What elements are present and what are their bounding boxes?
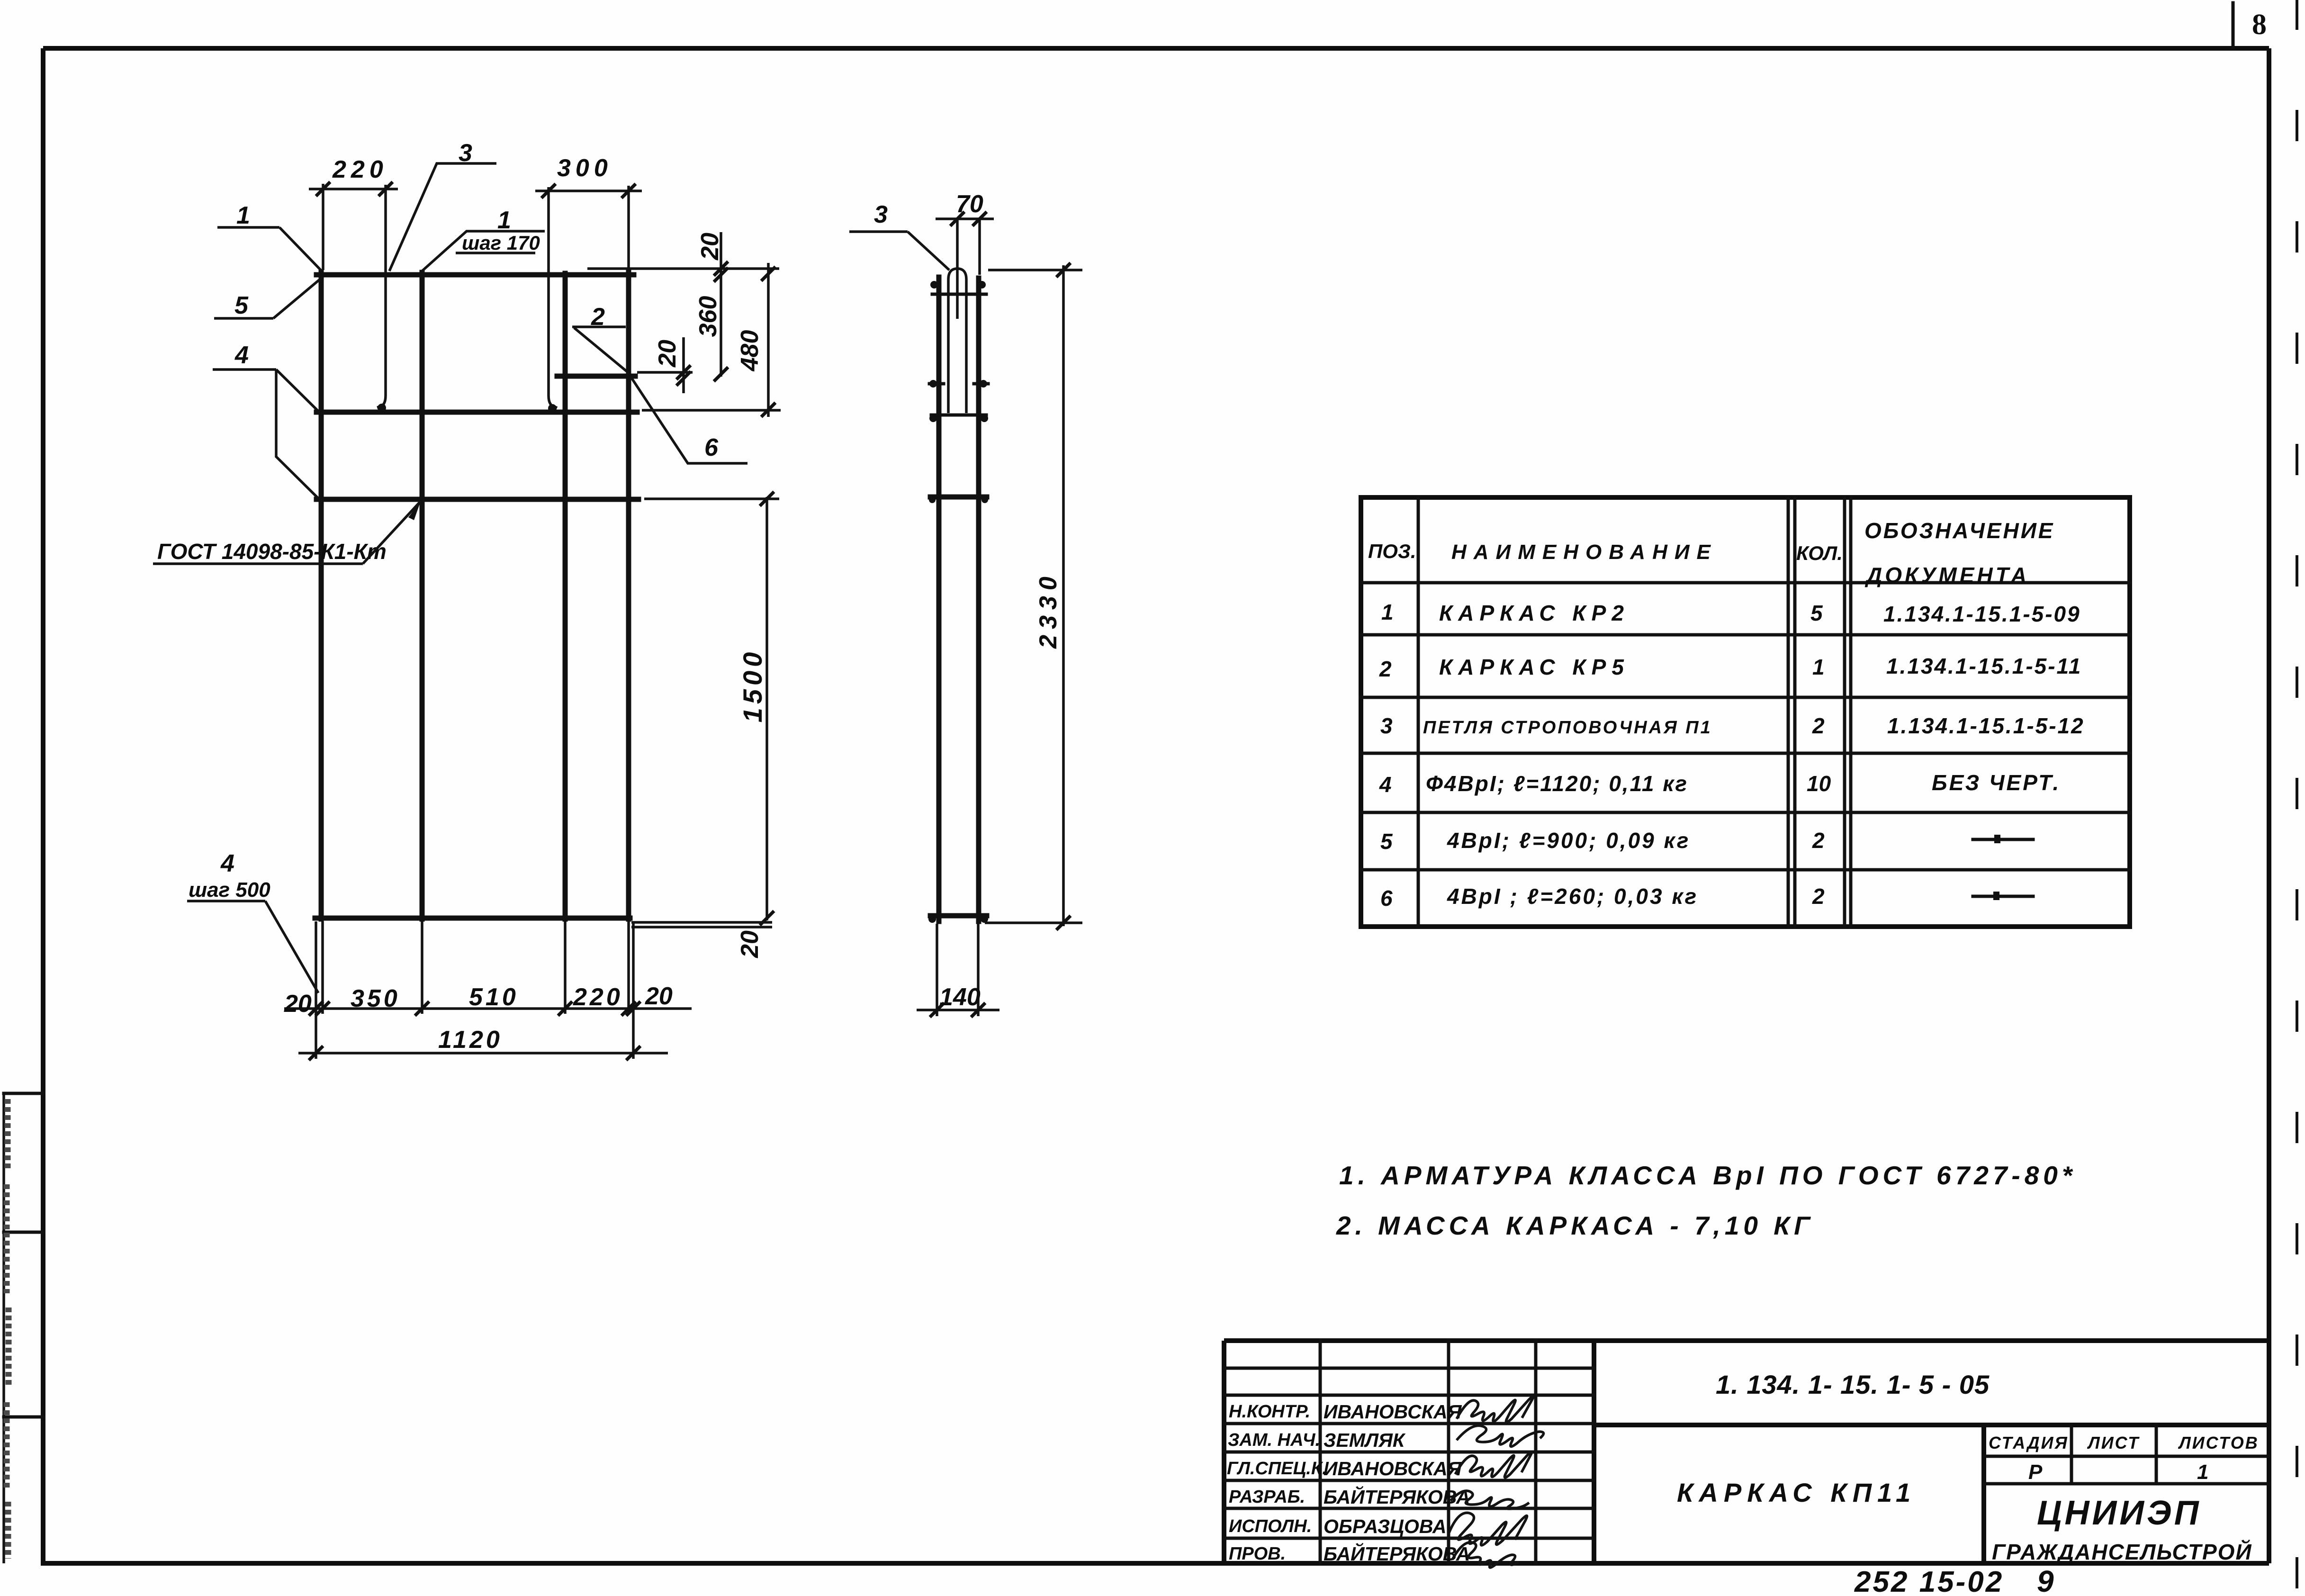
bottom ext v2 [421,921,423,1014]
loop item3 U-shape [948,269,966,413]
loop L2 weld dot [548,404,557,413]
svg-text:ИВАНОВСКАЯ: ИВАНОВСКАЯ [1324,1401,1462,1423]
bottom dim row1 line [284,1007,692,1010]
label 3 side leader [908,232,949,270]
row5 ditto mark [1973,838,2033,841]
dim 220 extension left [322,184,324,270]
svg-text:4ВрI ; ℓ=260; 0,03 кг: 4ВрI ; ℓ=260; 0,03 кг [1447,884,1698,909]
svg-text:20: 20 [284,990,312,1018]
rebar horizontal H1 top [316,272,634,278]
row1 tick d [558,1001,572,1016]
svg-text:3: 3 [459,139,472,167]
signature 3 [1455,1452,1532,1478]
doc number bottom line [1594,1423,2269,1427]
svg-text:ГРАЖДАНСЕЛЬСТРОЙ: ГРАЖДАНСЕЛЬСТРОЙ [1992,1540,2252,1564]
svg-text:СТАДИЯ: СТАДИЯ [1989,1433,2069,1452]
bottom ext far-left [315,921,317,1059]
dim 20 mid vertical [682,337,685,393]
lifting loop wire L1 [377,185,386,407]
svg-text:НАИМЕНОВАНИЕ: НАИМЕНОВАНИЕ [1451,541,1718,564]
svg-text:1. 134. 1- 15. 1- 5 - 05: 1. 134. 1- 15. 1- 5 - 05 [1716,1370,1990,1399]
table row line 3 [1361,752,2130,755]
short bar item6 [557,374,635,379]
table row line 2 [1361,696,2130,699]
svg-text:5: 5 [1810,601,1823,625]
svg-text:6: 6 [704,434,719,461]
stub dots [929,380,937,388]
svg-text:4ВрI; ℓ=900; 0,09 кг: 4ВрI; ℓ=900; 0,09 кг [1447,828,1690,853]
svg-text:9: 9 [2037,1564,2054,1596]
stamp row lines left part [1224,1368,1594,1538]
dim 220 line [309,188,398,190]
stamp outer left [1222,1341,1226,1563]
svg-text:ДОКУМЕНТА: ДОКУМЕНТА [1864,563,2029,587]
stage header bottom [1984,1455,2269,1458]
dim 300 extension v4 [627,186,630,270]
svg-text:4: 4 [1379,772,1392,797]
label 3 side underline [849,230,908,233]
dim 2330 tick bottom [1056,916,1071,930]
dim 480 tick bottom [761,403,775,417]
svg-text:КОЛ.: КОЛ. [1796,542,1843,564]
svg-text:220: 220 [332,156,388,183]
label 6 leader [631,377,747,463]
label 4 leader to H3 [276,370,318,498]
left edge smudge marks [7,1099,9,1559]
svg-text:220: 220 [573,983,623,1011]
side view [849,190,1082,1017]
row1 tick b [315,1001,330,1016]
dim 140 ext left [936,924,938,1016]
stage value bottom [1984,1482,2269,1486]
svg-text:ОБОЗНАЧЕНИЕ: ОБОЗНАЧЕНИЕ [1864,518,2054,543]
notes [1336,1161,2076,1240]
svg-text:КАРКАС КР5: КАРКАС КР5 [1439,655,1630,679]
svg-text:КАРКАС КП11: КАРКАС КП11 [1677,1478,1916,1507]
svg-text:1500: 1500 [738,649,767,723]
rebar vertical V4 [626,272,631,919]
row1 tick e [621,1001,636,1016]
svg-text:1.134.1-15.1-5-12: 1.134.1-15.1-5-12 [1887,713,2085,738]
label 4 shag500 leader [265,901,318,993]
dim 1500 ext top [644,497,779,500]
dim 220 tick left [316,182,330,196]
dim 480 vertical [767,263,770,417]
svg-text:140: 140 [939,983,981,1011]
svg-text:ЛИСТ: ЛИСТ [2087,1433,2140,1452]
svg-text:4: 4 [220,850,234,877]
table outer border [1361,497,2130,927]
dim 480 extension H2 [642,409,781,412]
stamp col line a [1319,1341,1322,1563]
table row line 4 [1361,811,2130,814]
svg-text:ЗАМ. НАЧ.: ЗАМ. НАЧ. [1228,1430,1320,1450]
dim 20 bottom ext lines [631,922,772,927]
left filing column divider 1 [4,1092,43,1095]
W2 end dots [929,415,937,422]
svg-text:70: 70 [956,190,983,218]
svg-text:ИСПОЛН.: ИСПОЛН. [1229,1516,1312,1536]
W1 end dots [930,281,938,289]
svg-text:3: 3 [874,201,888,228]
table row line 1 [1361,633,2130,637]
dim 220 tick right [378,182,393,196]
signature 2 [1457,1425,1544,1446]
svg-text:360: 360 [694,296,722,337]
dim 20 top tick1 [714,261,728,276]
label 4 leader to H2 [276,370,319,412]
dim 20 top vertical [720,232,722,377]
dim 70 tick left [950,212,964,226]
svg-text:ПРОВ.: ПРОВ. [1229,1544,1286,1564]
svg-text:Н.КОНТР.: Н.КОНТР. [1229,1402,1310,1422]
bottom dim row2 line [298,1052,668,1055]
dim 1500 vertical [765,497,768,920]
dim 2330 top ref [988,269,1082,271]
spec table [1361,497,2130,927]
svg-text:шаг 170: шаг 170 [462,232,540,254]
svg-text:1.134.1-15.1-5-09: 1.134.1-15.1-5-09 [1883,602,2081,626]
svg-text:1: 1 [2197,1461,2208,1484]
svg-text:2: 2 [1379,657,1392,681]
signature 5 [1449,1513,1527,1545]
svg-text:480: 480 [736,330,764,372]
svg-text:ЛИСТОВ: ЛИСТОВ [2178,1433,2259,1452]
side wire stubs mid [929,382,988,386]
side cross wire W3 [930,495,987,500]
table col line naim (double) [1788,497,1795,927]
loop center extension [956,219,959,319]
stage inner col2 [2155,1425,2158,1484]
dim 20 mid extension1 [637,371,693,374]
bottom ext v3 [564,921,567,1014]
label shag170 underline [456,252,535,254]
svg-text:БАЙТЕРЯКОВА: БАЙТЕРЯКОВА [1324,1486,1470,1508]
dim 20 mid tick1 [676,365,691,379]
svg-text:2: 2 [1812,713,1825,738]
svg-text:1: 1 [236,202,250,229]
svg-text:5: 5 [1380,829,1393,854]
svg-text:1120: 1120 [438,1026,503,1054]
rebar vertical V1 [319,272,324,919]
svg-text:шаг 500: шаг 500 [189,878,270,902]
label 2 leader [574,328,629,373]
page edge dashed line [2296,0,2298,1596]
dim 2330 vertical [1062,265,1065,926]
svg-text:БЕЗ ЧЕРТ.: БЕЗ ЧЕРТ. [1932,770,2061,795]
svg-text:ЗЕМЛЯК: ЗЕМЛЯК [1324,1429,1406,1451]
side cross wire W1 [932,293,986,296]
label 3 front leader [389,163,496,271]
label 4 underline [213,368,276,371]
front view [153,139,781,1060]
dim 480 tick top [761,267,775,281]
frame bottom [41,1561,2269,1566]
row1 tick a [309,1001,323,1016]
svg-text:10: 10 [1807,771,1831,796]
svg-text:1: 1 [1381,600,1394,624]
dim 20 mid tick2 [676,371,691,386]
side cross wire W2 [931,414,986,417]
rebar horizontal H4 bottom [315,916,630,921]
label 2 underline [572,325,626,328]
table row line 5 [1361,868,2130,872]
stage inner col1 [2070,1425,2073,1484]
bottom ext v4 [627,921,630,1014]
frame right [2267,48,2271,1563]
sheet number box line [2232,3,2235,48]
dim 300 tick left [541,184,556,198]
svg-text:4: 4 [234,342,249,369]
svg-text:Р: Р [2028,1461,2043,1484]
svg-text:ИВАНОВСКАЯ: ИВАНОВСКАЯ [1324,1458,1462,1479]
label 1 flag leader [422,231,545,271]
svg-text:2. МАССА КАРКАСА - 7,10 КГ: 2. МАССА КАРКАСА - 7,10 КГ [1336,1211,1814,1240]
frame left [41,48,45,1563]
svg-text:1. АРМАТУРА КЛАССА ВрI ПО: 1. АРМАТУРА КЛАССА ВрI ПО ГОСТ 6727-80* [1339,1161,2076,1190]
frame top [43,46,2269,51]
dim 70 tick right [972,212,987,226]
svg-text:ПОЗ.: ПОЗ. [1368,540,1416,562]
rebar horizontal H3 [316,497,639,502]
dim 140 ext right [977,924,980,1016]
stamp col line d [1592,1341,1596,1563]
label 1 top-left underline [217,226,279,229]
dim 2330 bottom ref [985,921,1082,924]
svg-text:1.134.1-15.1-5-11: 1.134.1-15.1-5-11 [1886,654,2082,678]
weld gost underline [153,562,363,565]
side cross wire W4 bottom [930,913,987,919]
left filing column left edge [2,1093,5,1563]
stamp col line c [1534,1341,1538,1563]
rebar vertical V3 [563,273,568,919]
stamp col line b [1447,1341,1450,1563]
side bar right [976,278,981,921]
dim 20 top tick2 [714,268,728,282]
table col line kol (double) [1845,497,1851,927]
weld gost arrowhead [408,501,421,520]
svg-text:ЦНИИЭП: ЦНИИЭП [2037,1494,2202,1532]
svg-text:6: 6 [1380,886,1393,911]
table col line poz [1417,497,1420,927]
row2 tick right [626,1046,640,1060]
dim 1500 tick bottom [760,911,774,925]
svg-text:1: 1 [1812,655,1825,679]
svg-text:КАРКАС КР2: КАРКАС КР2 [1439,601,1630,625]
svg-text:350: 350 [351,985,400,1012]
svg-text:2: 2 [1812,828,1825,853]
row1 tick f [626,1001,640,1016]
label 5 underline [214,317,273,320]
dim 1500 tick top [760,492,774,506]
svg-text:ОБРАЗЦОВА: ОБРАЗЦОВА [1324,1515,1447,1537]
svg-text:20: 20 [736,930,764,958]
dim 70 ext right [978,219,981,275]
stamp outer top [1224,1338,2269,1343]
weld gost leader arrow [363,501,421,564]
bottom ext far-right [632,921,635,1059]
dim 20 top extension line [587,267,779,270]
svg-text:510: 510 [469,983,519,1011]
left filing column divider 3 [4,1416,43,1419]
dim 140 line [917,1009,999,1011]
svg-text:РАЗРАБ.: РАЗРАБ. [1229,1487,1305,1507]
svg-text:1: 1 [497,207,511,234]
W3 end ticks [929,496,936,503]
label 4 shag500 underline [187,900,265,902]
svg-text:3: 3 [1380,713,1393,738]
svg-text:ГЛ.СПЕЦ.К.: ГЛ.СПЕЦ.К. [1227,1459,1327,1479]
label 1 top-left leader [279,227,322,271]
stage col line [1981,1425,1986,1563]
loop L1 weld dot [378,404,386,412]
svg-text:20: 20 [696,233,724,261]
dim 300 tick right [621,184,636,198]
svg-text:20: 20 [654,340,681,368]
label 5 leader [273,277,323,318]
lifting loop wire L2 [549,187,557,408]
svg-text:20: 20 [645,983,673,1010]
W4 end dots [928,915,936,923]
rebar horizontal H2 [316,410,637,415]
table header bottom line [1361,581,2130,585]
dim 2330 tick top [1056,263,1071,277]
dim 300 line [535,189,642,192]
svg-text:ПЕТЛЯ СТРОПОВОЧНАЯ П1: ПЕТЛЯ СТРОПОВОЧНАЯ П1 [1423,718,1712,738]
svg-text:8: 8 [2252,9,2267,41]
row2 tick left [309,1046,323,1060]
svg-text:252 15-02: 252 15-02 [1854,1566,2004,1596]
dim 140 tick right [971,1003,985,1017]
svg-text:5: 5 [234,292,249,319]
left filing column divider 2 [4,1231,43,1234]
dim 70 line [936,217,994,220]
svg-text:ГОСТ 14098-85-К1-Кт: ГОСТ 14098-85-К1-Кт [157,539,387,564]
dim 140 tick left [930,1003,944,1017]
row1 tick c [415,1001,429,1016]
row6 ditto mark [1973,895,2033,898]
svg-text:2330: 2330 [1035,571,1062,649]
signature 4 [1450,1491,1529,1509]
signature 6 [1452,1542,1519,1568]
side bar left [936,277,942,921]
signature 1 [1457,1396,1533,1422]
svg-text:БАЙТЕРЯКОВА: БАЙТЕРЯКОВА [1324,1542,1470,1565]
rebar vertical V2 [420,272,425,919]
title block [1224,1341,2269,1568]
svg-text:2: 2 [1812,884,1825,909]
svg-text:Ф4ВрI; ℓ=1120; 0,11 кг: Ф4ВрI; ℓ=1120; 0,11 кг [1426,771,1688,796]
dim 360 tick bottom [714,367,728,381]
svg-text:300: 300 [557,154,612,182]
bottom ext v1 [321,921,324,1014]
